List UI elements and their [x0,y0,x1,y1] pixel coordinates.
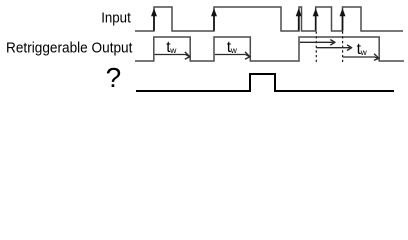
svg-text:w: w [169,45,177,55]
timing arrow tw from last retrigger to falling edge [343,54,379,61]
trigger arrow on input rising edge 3 [296,8,302,30]
dashed retrigger line at second trigger [315,32,317,64]
dashed retrigger line at third trigger [342,32,344,64]
svg-text:w: w [230,45,238,55]
trigger arrow on input rising edge 4 [313,8,319,30]
wire: Input waveform trace [135,7,403,31]
svg-text:?: ? [106,62,122,93]
label: tw for output pulse 1 [166,39,177,56]
svg-text:Input: Input [101,9,131,26]
tw arrow inside output pulse 1 [155,52,190,59]
label: tw for output pulse 2 [227,39,238,56]
wire: unknown (?) waveform trace [136,74,394,91]
wire: Retriggerable Output waveform trace [135,37,404,61]
timing arrow from second trigger (retrigger) [316,45,351,51]
trigger arrow on input rising edge 2 [211,8,217,30]
svg-text:Retriggerable Output: Retriggerable Output [6,39,133,56]
svg-text:w: w [360,47,368,57]
trigger arrow on input rising edge 5 [340,8,346,30]
trigger arrow on input rising edge 1 [151,8,157,30]
tw arrow inside output pulse 2 [215,52,250,59]
label: tw for long output pulse [357,41,368,58]
timing arrow from first trigger of long pulse [300,40,335,46]
